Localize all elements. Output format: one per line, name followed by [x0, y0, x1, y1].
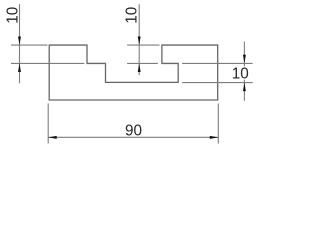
- dimension middle 10: extension line step surface: [127, 62, 158, 64]
- dimension left 10: dimension line: [19, 4, 21, 83]
- dimension right 10: arrowhead up: [243, 83, 246, 91]
- dimension right 10: dimension line lower segment: [243, 80, 245, 101]
- dimension right 10: arrowhead down: [243, 55, 246, 63]
- dimension middle 10: dimension line: [138, 4, 140, 75]
- dimension left 10: extension line top surface: [11, 44, 47, 46]
- dimension right 10: extension line undercut top: [182, 62, 253, 64]
- dimension left 10: arrowhead up: [18, 64, 21, 72]
- dimension middle 10: arrowhead up: [138, 64, 141, 72]
- dimension left 10: extension line step surface: [11, 62, 84, 64]
- part outline: stepped channel profile: [49, 45, 218, 100]
- dimension right 10: dimension line upper segment: [243, 42, 245, 67]
- svg-text:10: 10: [123, 7, 140, 24]
- svg-text:10: 10: [4, 7, 21, 24]
- dimension bottom 90: extension line left: [47, 103, 49, 143]
- dimension left 10: arrowhead down: [18, 37, 21, 45]
- dimension middle 10: extension line top surface: [127, 44, 159, 46]
- svg-text:10: 10: [232, 65, 249, 82]
- dimension bottom 90: dimension line: [48, 136, 218, 138]
- dimension bottom 90: arrowhead right: [210, 136, 219, 139]
- dimension right 10: extension line channel floor: [182, 82, 253, 84]
- dimension bottom 90: extension line right: [217, 103, 219, 143]
- dimension middle 10: arrowhead down: [138, 37, 141, 45]
- dimension bottom 90: arrowhead left: [48, 136, 57, 139]
- svg-text:90: 90: [125, 122, 142, 139]
